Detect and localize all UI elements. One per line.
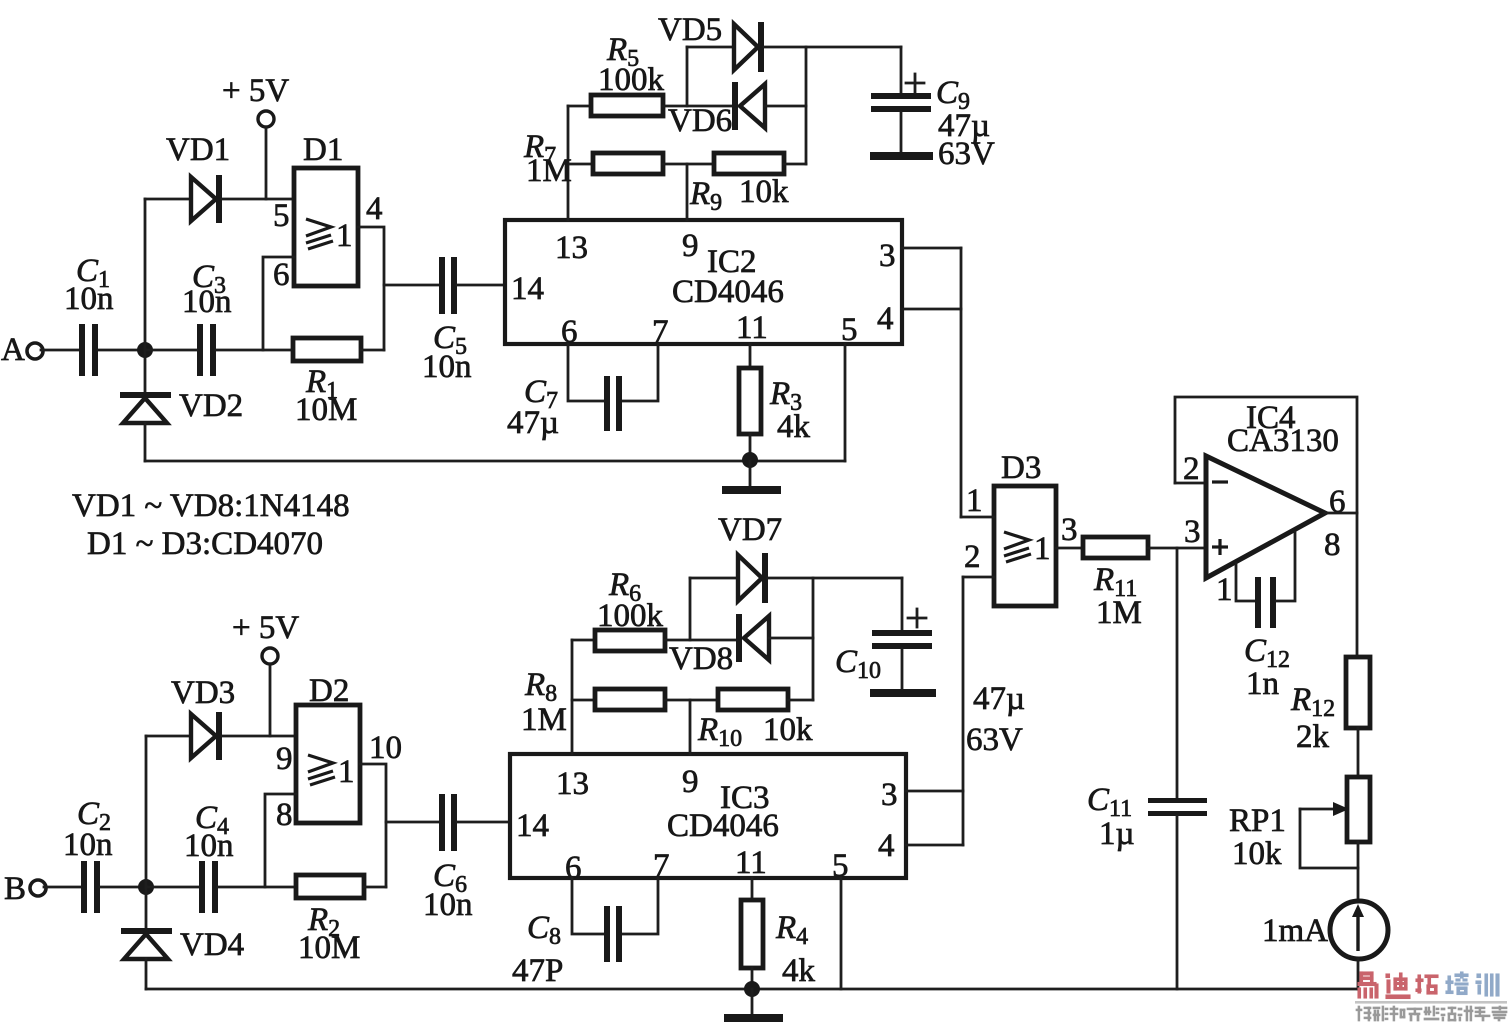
wire IC3 pin 13 up to R6/R8 <box>572 640 595 754</box>
svg-text:10k: 10k <box>1232 836 1282 872</box>
resistor R9 10k <box>689 153 789 216</box>
svg-text:10M: 10M <box>295 392 357 428</box>
svg-text:1µ: 1µ <box>1099 816 1135 852</box>
svg-text:3: 3 <box>879 238 896 274</box>
svg-text:5: 5 <box>273 198 290 234</box>
wire R6 right to VD8 <box>665 639 737 642</box>
wire R1 right to feedback vertical <box>361 349 384 352</box>
svg-text:10n: 10n <box>422 349 472 385</box>
svg-text:VD2: VD2 <box>179 388 243 424</box>
resistor R4 4k <box>741 878 816 989</box>
potentiometer RP1 10k <box>1229 777 1370 872</box>
resistor R2 10M <box>296 875 364 966</box>
wire IC3 pin 4 <box>906 844 963 847</box>
wire pin 6 of D1 <box>263 257 294 350</box>
junction node A <box>137 342 153 358</box>
svg-text:1M: 1M <box>521 702 567 738</box>
svg-text:14: 14 <box>516 808 549 844</box>
svg-text:VD7: VD7 <box>718 512 782 548</box>
capacitor C9 47u 63V <box>870 47 995 172</box>
svg-text:VD1 ~ VD8:1N4148: VD1 ~ VD8:1N4148 <box>72 488 350 524</box>
wire op-amp pin 2 <box>1175 482 1206 485</box>
wire op-amp output pin 6 <box>1325 512 1357 515</box>
svg-text:8: 8 <box>276 797 293 833</box>
wire C5 to IC2 pin 14 <box>457 284 505 287</box>
wire pin 8 of D2 <box>265 794 296 887</box>
watermark underline <box>1355 1001 1507 1004</box>
diode VD3 <box>146 675 296 760</box>
label C10 value 47u 63V <box>966 681 1025 758</box>
svg-text:14: 14 <box>511 271 544 307</box>
diode VD1 <box>145 132 294 223</box>
svg-text:D2: D2 <box>309 673 349 709</box>
svg-text:63V: 63V <box>938 136 995 172</box>
wire R7 to R9 <box>663 163 714 166</box>
svg-text:1M: 1M <box>526 153 572 189</box>
svg-text:5: 5 <box>841 312 858 348</box>
wire R2 right to feedback vertical <box>364 886 386 889</box>
svg-text:8: 8 <box>1324 527 1341 563</box>
svg-text:100k: 100k <box>598 62 665 98</box>
svg-text:2: 2 <box>1183 451 1200 487</box>
wire D3 pin 2 <box>963 576 994 579</box>
wire C11 to bottom rail <box>1176 816 1179 989</box>
svg-text:1mA: 1mA <box>1262 913 1328 949</box>
svg-text:10k: 10k <box>763 712 813 748</box>
junction node B <box>138 879 154 895</box>
capacitor C7 47u <box>507 374 622 441</box>
node A input terminal <box>1 332 43 368</box>
svg-text:9: 9 <box>682 764 699 800</box>
svg-text:7: 7 <box>653 848 670 884</box>
wire node to C3 <box>145 349 197 352</box>
ground symbol B <box>724 989 783 1022</box>
wire op-amp feedback loop <box>1175 397 1357 657</box>
svg-text:1n: 1n <box>1246 666 1279 702</box>
wire C6 to IC3 pin 14 <box>457 821 510 824</box>
node B input terminal <box>4 871 46 907</box>
wire R5 right to VD6 <box>663 105 734 108</box>
wire VD5/VD6/R9 vertical <box>805 47 808 164</box>
wire A to C1 <box>41 349 79 352</box>
svg-text:4k: 4k <box>782 953 816 989</box>
svg-text:2: 2 <box>964 539 981 575</box>
wire ground rail channel A <box>145 460 845 463</box>
svg-text:10n: 10n <box>182 284 232 320</box>
capacitor C1 10n <box>64 253 114 376</box>
diode VD4 <box>121 887 244 989</box>
svg-text:D1: D1 <box>303 132 343 168</box>
svg-text:13: 13 <box>555 230 588 266</box>
svg-text:CD4046: CD4046 <box>667 808 779 844</box>
wire junction up to VD5 <box>686 47 689 106</box>
+5V supply A <box>222 73 289 199</box>
wire IC3 pin 5 down to rail <box>840 878 843 989</box>
wire IC2 pin 4 <box>902 308 961 311</box>
watermark slogan row 2 <box>1356 1006 1507 1021</box>
svg-text:10n: 10n <box>63 827 113 863</box>
+5V supply B <box>232 610 299 736</box>
wire vertical to D3 pin 2 <box>962 577 965 845</box>
capacitor C2 10n <box>63 796 113 913</box>
watermark logo row 1 (red+blue brand glyphs) <box>1358 972 1499 999</box>
diode VD5 <box>658 12 901 72</box>
svg-text:CA3130: CA3130 <box>1227 423 1339 459</box>
svg-text:3: 3 <box>881 777 898 813</box>
wire IC2 pin 6 / pin 7 to C7 <box>568 344 658 401</box>
resistor R10 10k <box>697 689 813 752</box>
wire meter to rail <box>1357 959 1360 989</box>
capacitor C10 47u 63V <box>835 578 936 697</box>
resistor R5 100k <box>591 32 665 116</box>
resistor R6 100k <box>595 567 665 651</box>
svg-text:13: 13 <box>556 766 589 802</box>
svg-text:+ 5V: + 5V <box>222 73 289 109</box>
junction node ground B <box>744 981 760 997</box>
wire vertical down to C11 <box>1176 548 1179 799</box>
svg-text:10n: 10n <box>64 281 114 317</box>
resistor R12 2k <box>1290 657 1370 755</box>
svg-text:47µ: 47µ <box>973 681 1025 717</box>
diode VD6 <box>668 82 806 139</box>
wire node to C4 <box>146 886 199 889</box>
wire pin 10 output of D2 <box>360 764 386 887</box>
svg-text:1: 1 <box>1034 531 1051 567</box>
svg-text:4: 4 <box>366 191 383 227</box>
wire pin 4 output of D1 <box>358 227 384 350</box>
svg-text:VD4: VD4 <box>180 927 244 963</box>
svg-text:CD4046: CD4046 <box>672 274 784 310</box>
svg-text:47P: 47P <box>512 953 563 989</box>
svg-text:RP1: RP1 <box>1229 803 1286 839</box>
wire R9 right to vertical <box>784 163 806 166</box>
op-amp IC4 CA3130 <box>1183 400 1346 608</box>
XOR gate D3 CD4070 <box>964 450 1078 606</box>
wire R8 to R10 <box>665 699 718 702</box>
resistor R1 10M <box>293 338 361 428</box>
wire C1 to node <box>98 349 145 352</box>
svg-text:9: 9 <box>682 228 699 264</box>
wire ground rail channel B <box>146 988 1358 991</box>
capacitor C4 10n <box>184 800 234 913</box>
XOR gate D1 CD4070 <box>273 132 383 293</box>
wire IC2 pin 13 up to R5/R7 <box>568 106 593 220</box>
wire VD7/VD8/R10 vertical <box>812 578 815 700</box>
XOR gate D2 CD4070 <box>276 673 402 833</box>
capacitor C8 47P <box>512 906 622 989</box>
wire C2 to node <box>100 886 146 889</box>
svg-text:4k: 4k <box>777 409 811 445</box>
svg-text:VD1: VD1 <box>166 132 230 168</box>
wire IC3 pin 3 <box>906 790 963 793</box>
IC2 CD4046 <box>505 220 902 350</box>
diode VD8 <box>669 614 813 677</box>
svg-text:4: 4 <box>877 301 894 337</box>
svg-text:4: 4 <box>878 828 895 864</box>
svg-text:63V: 63V <box>966 722 1023 758</box>
wire IC2 pin 5 down to rail <box>844 344 847 461</box>
svg-text:VD5: VD5 <box>658 12 722 48</box>
wire R10 right to vertical <box>788 699 813 702</box>
wire C3 to R1 <box>216 349 293 352</box>
svg-text:3: 3 <box>1184 514 1201 550</box>
capacitor C12 1n <box>1236 532 1295 702</box>
svg-text:1: 1 <box>336 218 353 254</box>
svg-text:10n: 10n <box>184 828 234 864</box>
svg-text:6: 6 <box>273 257 290 293</box>
wire vertical to D3 pin 1 <box>960 248 963 517</box>
wire D3 pin 1 <box>961 516 994 519</box>
svg-text:100k: 100k <box>597 598 664 634</box>
svg-text:7: 7 <box>652 314 669 350</box>
wire junction down to IC2 pin 9 <box>686 164 689 220</box>
svg-text:+ 5V: + 5V <box>232 610 299 646</box>
IC3 CD4046 <box>510 754 906 886</box>
wire R11 to op-amp + input <box>1148 547 1206 550</box>
svg-text:10k: 10k <box>739 174 789 210</box>
diode VD2 <box>120 350 243 461</box>
svg-text:1: 1 <box>338 754 355 790</box>
meter 1mA <box>1262 901 1388 959</box>
svg-text:3: 3 <box>1061 512 1078 548</box>
svg-text:1: 1 <box>1216 572 1233 608</box>
wire IC3 pin 6 / pin 7 to C8 <box>572 878 658 934</box>
svg-text:VD3: VD3 <box>171 675 235 711</box>
svg-text:47µ: 47µ <box>507 405 559 441</box>
junction node ground A <box>742 452 758 468</box>
wire node up to VD3 branch <box>145 736 148 887</box>
wire B to C2 <box>44 886 81 889</box>
svg-text:VD8: VD8 <box>669 641 733 677</box>
capacitor C5 10n <box>422 257 472 385</box>
svg-text:11: 11 <box>735 845 767 881</box>
capacitor C3 10n <box>182 259 232 376</box>
wire R12 to RP1 <box>1357 728 1360 777</box>
resistor R3 4k <box>739 344 811 445</box>
svg-text:2k: 2k <box>1296 719 1330 755</box>
svg-text:A: A <box>1 332 25 368</box>
wire branch to C5 <box>384 284 439 287</box>
wire C4 to R2 <box>218 886 296 889</box>
svg-text:1M: 1M <box>1096 595 1142 631</box>
wire RP1 to meter <box>1357 842 1360 903</box>
svg-text:1: 1 <box>966 483 983 519</box>
svg-text:10: 10 <box>369 730 402 766</box>
wire junction up to VD7 <box>689 578 692 640</box>
wire branch to C6 <box>386 821 439 824</box>
svg-text:D1 ~ D3:CD4070: D1 ~ D3:CD4070 <box>87 526 323 562</box>
wire junction down to IC3 pin 9 <box>689 700 692 754</box>
capacitor C11 1u <box>1087 782 1207 852</box>
wire R4 to ground node <box>751 968 754 989</box>
svg-text:10n: 10n <box>423 887 473 923</box>
svg-text:D3: D3 <box>1001 450 1041 486</box>
wire IC2 pin 3 <box>902 247 961 250</box>
svg-text:VD6: VD6 <box>668 103 732 139</box>
diode VD7 <box>690 512 902 603</box>
svg-text:9: 9 <box>276 741 293 777</box>
wire D3 output <box>1056 547 1083 550</box>
wire R3 to ground node <box>749 434 752 461</box>
ground symbol A <box>722 461 781 494</box>
resistor R8 1M <box>521 667 665 738</box>
svg-text:B: B <box>4 871 26 907</box>
svg-text:11: 11 <box>736 310 768 346</box>
resistor R7 1M <box>523 129 663 189</box>
resistor R11 1M <box>1083 537 1148 631</box>
capacitor C6 10n <box>423 794 473 923</box>
wire node up to VD1 branch <box>144 199 147 350</box>
svg-text:6: 6 <box>1329 484 1346 520</box>
svg-text:10M: 10M <box>298 930 360 966</box>
